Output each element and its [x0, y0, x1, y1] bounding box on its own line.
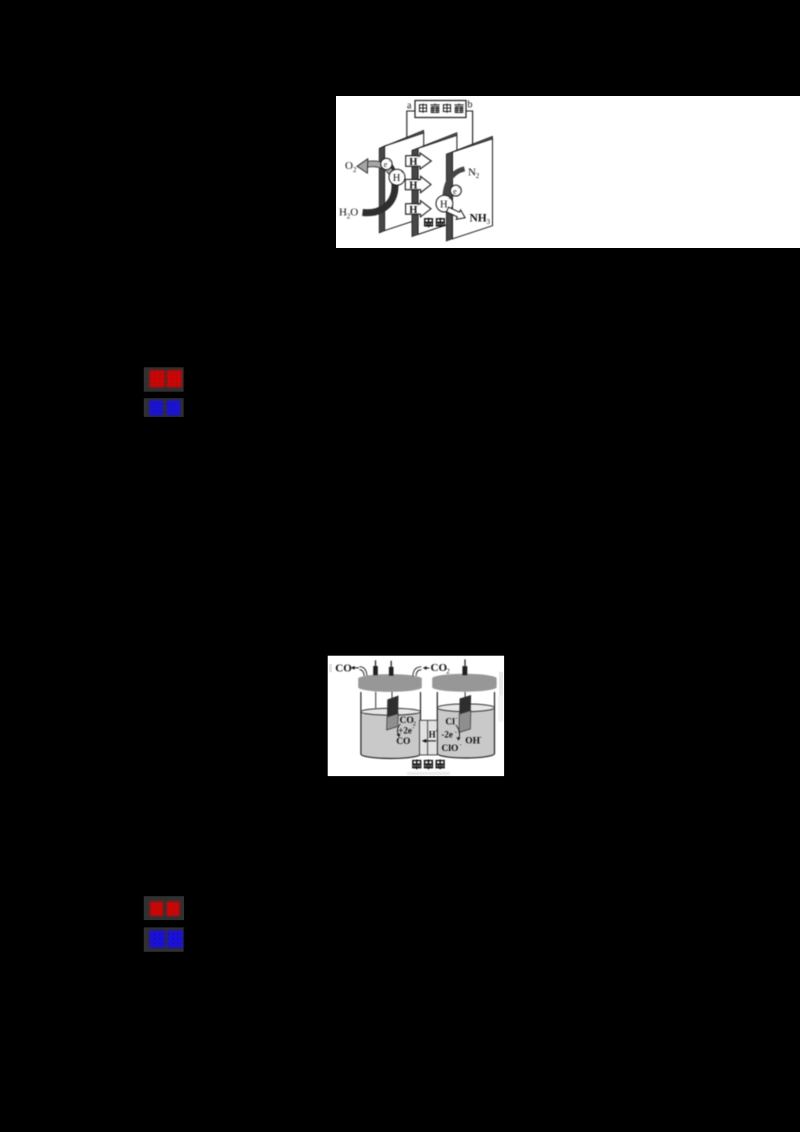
- svg-text:H: H: [393, 173, 401, 184]
- white panel: electrolysis figure: [336, 96, 800, 248]
- blue answer tag 1: [144, 398, 184, 417]
- terminal post 2: [390, 661, 392, 667]
- svg-text:e: e: [384, 160, 388, 169]
- H+ block arrow 3: [406, 201, 431, 217]
- svg-text:CO: CO: [431, 662, 448, 674]
- right electrode: [459, 695, 471, 714]
- terminal post 3: [464, 659, 466, 666]
- left beaker outline: [361, 692, 421, 758]
- svg-text:ClO: ClO: [442, 744, 459, 754]
- red answer tag 2: [144, 896, 184, 920]
- H+ block arrow 1: [406, 153, 432, 169]
- CO outlet arrow: [353, 667, 359, 669]
- medium label (Chinese): [424, 218, 445, 228]
- left cell cap: [358, 674, 422, 692]
- N2 swoosh (right plate): [445, 169, 465, 200]
- svg-text:-: -: [412, 726, 414, 732]
- svg-text:CO: CO: [396, 737, 410, 747]
- wire a: [407, 111, 415, 137]
- svg-text:-: -: [460, 742, 462, 748]
- svg-text:a: a: [407, 101, 412, 112]
- svg-text:NH: NH: [470, 213, 487, 225]
- svg-text:OH: OH: [465, 737, 480, 747]
- CO2 inlet arrow: [425, 667, 429, 669]
- svg-text:3: 3: [487, 218, 491, 226]
- CO outlet tube: [360, 667, 368, 677]
- svg-text:+: +: [417, 203, 420, 209]
- H+ circle (right): [436, 195, 453, 212]
- svg-text:H: H: [339, 207, 347, 219]
- svg-text:Cl: Cl: [445, 717, 455, 727]
- left electrode: [387, 696, 399, 718]
- H+ circle (left): [389, 169, 405, 185]
- svg-text:-: -: [455, 716, 457, 722]
- svg-text:N: N: [468, 167, 476, 179]
- svg-text:-2e: -2e: [441, 730, 453, 740]
- right electrode plate: [446, 136, 492, 241]
- red answer tag 1: [144, 367, 184, 391]
- terminal post 1: [375, 660, 377, 666]
- svg-text:O: O: [345, 160, 353, 172]
- H+ block arrow 2: [405, 176, 431, 192]
- blue answer tag 2: [144, 927, 184, 951]
- left electrode plate: [379, 130, 424, 233]
- DC power supply box: [415, 101, 466, 118]
- svg-text:H: H: [440, 199, 448, 210]
- left beaker liquid: [361, 712, 421, 759]
- svg-text:2: 2: [476, 172, 480, 180]
- svg-text:O: O: [350, 207, 358, 219]
- exchange membrane label: [407, 759, 450, 775]
- white panel: twin electrolysis cells figure: [328, 656, 504, 776]
- CO2 inlet tube: [413, 667, 422, 676]
- svg-text:e: e: [453, 187, 457, 196]
- right cell cap: [432, 674, 496, 692]
- NH3 banner arrow: [445, 205, 467, 223]
- svg-text:-: -: [455, 730, 457, 736]
- H+ arrow in tube: [426, 740, 437, 742]
- right beaker outline: [437, 692, 494, 758]
- svg-text:2: 2: [353, 166, 357, 174]
- right beaker liquid: [437, 708, 494, 758]
- left liquid surface: [361, 708, 421, 715]
- electrode wires left: [376, 692, 392, 708]
- exchange-membrane tube: [420, 720, 438, 755]
- svg-text:+: +: [417, 178, 420, 184]
- middle membrane plate: [412, 133, 457, 237]
- svg-text:+: +: [417, 155, 420, 161]
- svg-text:-: -: [480, 735, 482, 741]
- svg-text:b: b: [468, 100, 473, 111]
- O2/H2O swoosh: [357, 159, 395, 213]
- electrode wire right: [464, 692, 466, 698]
- electron circle (right): [450, 185, 461, 196]
- right liquid surface: [437, 704, 494, 712]
- electron circle (left): [381, 158, 392, 169]
- svg-text:CO: CO: [335, 662, 352, 674]
- wire b: [466, 111, 473, 145]
